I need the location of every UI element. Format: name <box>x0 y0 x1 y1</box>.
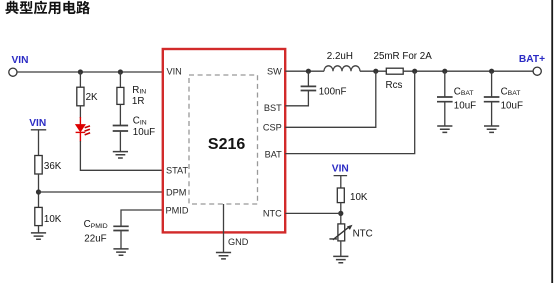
ground under CPMID <box>113 249 128 255</box>
wire 2K to LED <box>79 106 81 118</box>
wire CIN to ground <box>119 132 121 152</box>
ground under NTC <box>333 256 348 262</box>
wire BAT pin run <box>285 71 415 153</box>
svg-text:NTC: NTC <box>353 228 373 239</box>
junction at DPM <box>36 189 41 194</box>
title 典型应用电路 <box>5 1 90 15</box>
LED D1 (red) <box>76 117 91 142</box>
svg-text:22uF: 22uF <box>84 234 106 245</box>
svg-text:VIN: VIN <box>167 67 182 77</box>
svg-text:10K: 10K <box>44 214 62 225</box>
wire LED to STAT <box>80 141 162 170</box>
wire 10K to ground <box>38 226 40 233</box>
svg-text:100nF: 100nF <box>319 86 347 97</box>
svg-text:SW: SW <box>267 67 282 77</box>
wire CBAT2 branch <box>491 71 493 126</box>
junction at NTC pin <box>338 211 343 216</box>
wire inductor to Rcs <box>360 70 386 72</box>
junction at BST cap <box>306 69 311 74</box>
junction at CBAT1 <box>442 69 447 74</box>
junction at 2K branch <box>78 69 83 74</box>
wire VIN to 2K <box>79 72 81 87</box>
capacitor CBST 100nF <box>301 86 317 90</box>
wire CSP pin run <box>285 71 376 127</box>
svg-text:1R: 1R <box>132 96 145 107</box>
capacitor CIN 10uF <box>113 126 128 132</box>
IC inner dashed die <box>189 75 258 204</box>
wire SW to inductor <box>285 70 324 72</box>
junction at RIN branch <box>118 69 123 74</box>
capacitor CBAT 10uF (2) <box>484 97 500 102</box>
wire GND stub <box>223 204 225 253</box>
junction after Rcs <box>412 69 417 74</box>
wire divider to DPM pin <box>39 191 163 193</box>
ground under CBAT2 <box>484 126 499 132</box>
svg-text:DPM: DPM <box>166 187 186 197</box>
wire VIN stub to 36K <box>31 130 46 156</box>
resistor Rcs 25mR <box>386 68 403 74</box>
svg-text:10K: 10K <box>350 192 368 203</box>
wire VIN terminal to IC VIN pin <box>16 71 162 73</box>
inductor L1 2.2uH <box>324 66 360 71</box>
svg-text:VIN: VIN <box>29 118 46 129</box>
svg-text:BAT: BAT <box>265 149 283 159</box>
resistor RIN 1R <box>117 87 124 104</box>
svg-text:VIN: VIN <box>12 55 29 66</box>
node VIN input terminal <box>9 68 17 76</box>
svg-text:CSP: CSP <box>263 122 282 132</box>
wire 36K to 10K <box>38 174 40 207</box>
wire 10K to NTC node <box>340 203 342 224</box>
svg-text:VIN: VIN <box>332 163 349 174</box>
svg-text:PMID: PMID <box>166 205 189 215</box>
capacitor CBAT 10uF (1) <box>437 97 453 102</box>
resistor 10K (NTC) <box>337 188 344 203</box>
junction at CSP sense <box>373 69 378 74</box>
thermistor NTC <box>338 224 345 241</box>
wire VIN stub to 10K <box>334 176 348 188</box>
ground under CBAT1 <box>437 126 452 132</box>
ground under IC <box>216 253 231 259</box>
svg-text:10uF: 10uF <box>133 127 155 138</box>
svg-text:GND: GND <box>228 237 249 247</box>
resistor R 2K <box>77 87 84 106</box>
wire VIN to RIN <box>119 72 121 87</box>
svg-text:2.2uH: 2.2uH <box>327 51 353 62</box>
svg-text:36K: 36K <box>44 161 62 172</box>
svg-text:NTC: NTC <box>263 209 282 219</box>
wire NTC pin run <box>285 212 341 214</box>
wire NTC to ground <box>340 241 342 257</box>
svg-text:BST: BST <box>264 103 282 113</box>
capacitor CPMID 22uF <box>113 226 128 230</box>
svg-text:2K: 2K <box>86 92 98 103</box>
page right border <box>551 0 553 283</box>
resistor 10K (left) <box>35 207 42 225</box>
wire CPMID to ground <box>120 231 122 249</box>
wire BST branch <box>285 71 308 106</box>
svg-text:STAT: STAT <box>166 165 189 175</box>
wire CBAT1 branch <box>444 71 446 126</box>
wire PMID to CPMID <box>121 210 162 226</box>
wire RIN to CIN <box>119 104 121 125</box>
op IC U1 S216 outline <box>163 49 285 232</box>
svg-text:10uF: 10uF <box>501 100 523 111</box>
svg-text:25mR For 2A: 25mR For 2A <box>374 51 433 62</box>
node BAT+ terminal <box>533 67 541 75</box>
svg-text:Rcs: Rcs <box>386 80 403 91</box>
svg-text:S216: S216 <box>208 136 245 153</box>
junction at CBAT2 <box>489 69 494 74</box>
svg-text:BAT+: BAT+ <box>519 54 545 65</box>
resistor 36K <box>35 156 42 175</box>
ground under 10K <box>31 233 46 239</box>
wire Rcs to BAT+ <box>403 70 533 72</box>
ground under CIN <box>113 152 128 158</box>
svg-text:10uF: 10uF <box>454 100 476 111</box>
